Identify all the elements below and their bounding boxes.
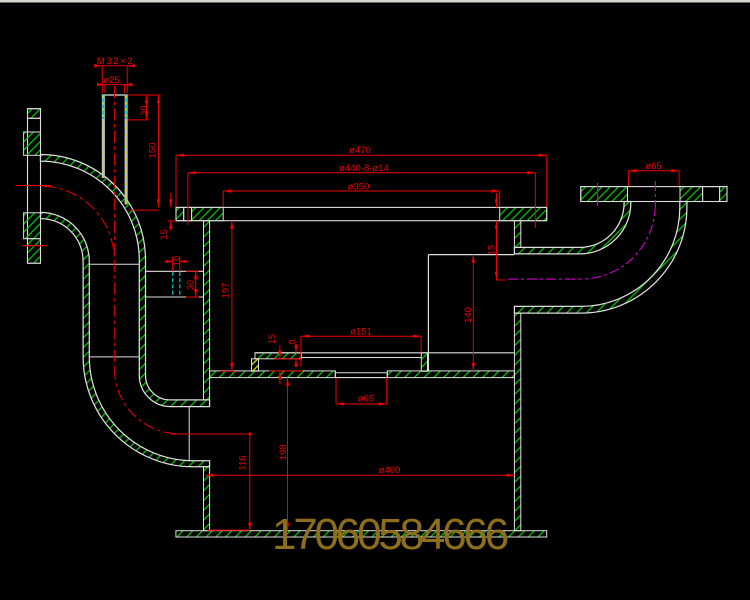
dimension 30 stub line [195, 271, 197, 297]
flange F2 plate outline [581, 187, 727, 202]
vessel top flange left section hatch [192, 207, 224, 220]
dimension dia350 line [223, 190, 500, 192]
weld seam below upper elbow [89, 263, 139, 265]
svg-text:17060584666: 17060584666 [272, 510, 508, 559]
dimension dia400 line [205, 474, 514, 476]
svg-text:8: 8 [287, 339, 297, 344]
stub pipe thread cyan right [179, 272, 181, 297]
vessel shell right wall upper [514, 221, 520, 248]
weld seam above lower elbow [89, 356, 139, 358]
dimension 150 line [158, 95, 160, 207]
dimension 8 seal line [295, 344, 297, 353]
pipe M32 left wall bar [102, 95, 105, 178]
flange F1 top hatch cell [28, 109, 41, 119]
centerline right pipe vertical [654, 181, 656, 206]
svg-text:197: 197 [221, 283, 232, 299]
dimension dia440 line [188, 172, 535, 174]
stub pipe top edge [146, 270, 204, 272]
flange F1 lower hub hatch [24, 213, 41, 239]
svg-text:15: 15 [487, 245, 497, 255]
dimension 15 seal line [279, 345, 281, 359]
flange F2 bolt hole centerline [597, 183, 599, 206]
pipe M32 wall hatch yellow left [102, 96, 104, 178]
dimension 15 left line [170, 193, 172, 207]
dimension 140 line [472, 255, 474, 371]
vessel top flange left bolt hole cell [184, 207, 192, 220]
svg-text:15: 15 [159, 229, 170, 240]
internal baffle horizontal line [428, 254, 514, 256]
dimension dia65 top line [628, 170, 679, 172]
svg-text:140: 140 [463, 307, 474, 323]
pipe P1 inner wall band (lower wall of horiz pipe, downpipe left wall, lower elbow outer arc, side pipe bottom wall) [41, 212, 210, 466]
seal disc D151 right skirt hatch [421, 353, 427, 372]
flange F1 top bolt hole cell [28, 118, 41, 132]
flange F1 disc outline [28, 109, 41, 264]
dimension 197 line [231, 221, 233, 371]
pipe M32 wall hatch yellow right [125, 96, 127, 205]
dimension 30 thread line [146, 95, 148, 120]
weld seam at vessel wall (side pipe) [188, 407, 190, 461]
pipe P2 inner wall band (right elbow small arc + horiz top wall) [514, 202, 630, 254]
dimension 116 line [249, 434, 251, 531]
dimension 10 line [172, 257, 174, 271]
svg-text:30: 30 [139, 105, 150, 116]
pipe P2 outer wall band (right elbow big arc + horiz bottom wall) [514, 202, 687, 314]
vessel top flange left rim hatch [176, 207, 184, 220]
flange F2 right rim hatch [720, 187, 727, 202]
svg-text:ø400: ø400 [379, 465, 401, 476]
centerline left pipe horizontal [46, 185, 52, 187]
internal support bar hatch (left) [255, 353, 302, 359]
pipe P1 outer wall band (upper elbow outer arc, downpipe right wall, lower inner corner, side pipe top wall) [40, 155, 209, 407]
pipe M32 thread cyan right [125, 96, 127, 120]
vessel bottom flange plate [176, 531, 547, 537]
window top strip [0, 0, 750, 3]
flange F1 pipe centerline cross [16, 185, 47, 187]
flange F1 bottom hatch cell [28, 239, 41, 264]
centerline upper elbow arc [44, 186, 114, 260]
centerline lower elbow arc [114, 369, 179, 434]
vessel top flange plate outline [176, 207, 547, 220]
centerline right pipe horizontal [508, 278, 581, 280]
pipe M32 thread cyan left [102, 96, 104, 120]
internal shelf plate line [255, 352, 514, 354]
dimension dia470 line [176, 154, 547, 156]
flange F2 left section hatch [581, 187, 628, 202]
vessel shell right wall lower [514, 313, 520, 531]
dimension 15 right line [496, 193, 498, 207]
node side pipe centerline dot [249, 432, 252, 435]
flange F1 bolt hole centerline [23, 245, 47, 247]
stub pipe thread cyan left [172, 272, 174, 297]
svg-text:15: 15 [267, 334, 277, 344]
dimension dia151 line [301, 335, 421, 337]
svg-text:ø470: ø470 [349, 145, 371, 156]
vessel shell left wall upper [204, 221, 210, 400]
dimension dia25 line [98, 84, 131, 86]
centerline right elbow arc [581, 206, 656, 279]
svg-text:30: 30 [185, 280, 195, 290]
svg-text:150: 150 [148, 143, 159, 159]
pipe M32 top edge [102, 94, 128, 96]
pipe M32 right wall bar [125, 95, 128, 205]
internal spacer yellow (gasket) [252, 359, 259, 371]
centerline downpipe [113, 260, 115, 369]
dimension dia65 bottom line [336, 403, 387, 405]
vessel shell left wall lower [204, 467, 210, 531]
dimension 198 line [287, 378, 289, 531]
seal disc D151 top plate [302, 357, 422, 359]
flange F2 bolt hole cell [703, 187, 720, 202]
vessel bottom plate left part [210, 371, 336, 378]
svg-text:ø65: ø65 [358, 394, 374, 405]
svg-text:116: 116 [238, 455, 249, 470]
flange F2 right section hatch [680, 187, 703, 202]
centerline pipe M32 [114, 86, 116, 258]
flange F1 upper hub hatch [24, 132, 41, 155]
centerline side pipe + 116 reference [171, 433, 251, 435]
stub pipe bottom edge [146, 296, 204, 298]
internal baffle vertical line [427, 255, 429, 372]
vessel top flange right section hatch [500, 207, 547, 220]
dimension M32x2 line [95, 65, 134, 67]
vessel bottom plate right part [387, 371, 514, 378]
nozzle N65 collar in bottom plate [335, 371, 387, 378]
